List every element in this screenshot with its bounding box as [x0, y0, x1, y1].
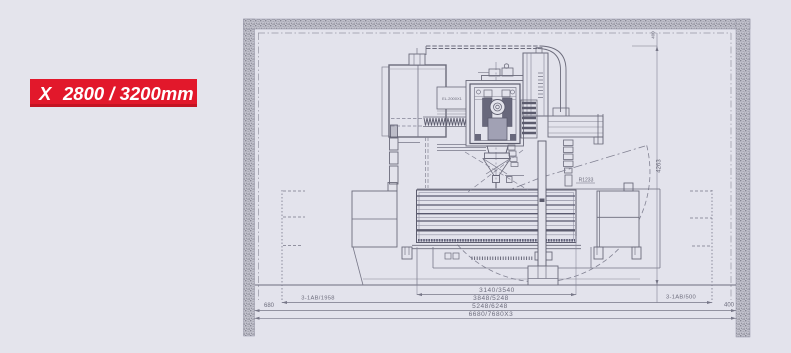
duct bottom box: [553, 108, 569, 117]
crossrail hidden lines in cabinet: [391, 119, 423, 127]
wall right (hatched): [736, 19, 750, 337]
vertical post: [538, 141, 546, 266]
cabinet right leg (hidden): [426, 137, 429, 188]
svg-text:2800 / 3200mm: 2800 / 3200mm: [62, 83, 194, 104]
head top plate: [482, 76, 524, 81]
swing radial upper: [541, 146, 645, 178]
dim line D 6680/7680: [255, 311, 737, 320]
head neck: [487, 146, 508, 153]
red label X 2800/3200mm: [30, 79, 197, 107]
tool: [493, 176, 500, 183]
height dim tick: [632, 45, 657, 47]
tool changer steps: [508, 145, 518, 167]
cabinet left leg: [390, 138, 399, 184]
EL.2000 label box: [437, 87, 467, 109]
clearance dotted line left: [281, 190, 283, 303]
right wing stub: [624, 183, 633, 191]
head housing inner: [475, 88, 517, 141]
column label dashes: [538, 73, 543, 98]
ladder blocks under beam: [564, 140, 574, 186]
dim line A 3140/3540: [417, 287, 576, 296]
electrical cabinet: [389, 65, 446, 137]
lines below EL box: [437, 111, 466, 114]
platform lines left of spindle: [437, 145, 486, 151]
dim A extension lines: [417, 236, 576, 295]
cable duct horizontal: [426, 46, 540, 49]
clearance dotted line right: [711, 190, 713, 303]
center pocket: [535, 252, 552, 260]
head gearbox right block: [503, 98, 513, 127]
head corner blocks: [475, 134, 481, 141]
head housing outer: [466, 81, 524, 147]
cabinet bottom-left box: [391, 125, 398, 137]
saddle lines below table: [412, 245, 581, 248]
cable duct start drop: [425, 46, 427, 55]
soft veil over drawing: [240, 0, 791, 353]
cabinet divider: [417, 65, 419, 137]
spindle collar: [485, 153, 510, 159]
shelf line right of head: [505, 175, 524, 177]
boundary line dash-dot right: [730, 33, 732, 300]
svg-text:X: X: [38, 83, 53, 104]
dim line C 5248/6248: [255, 303, 737, 313]
head gearbox left block: [483, 98, 493, 127]
crossrail beam right: [548, 114, 603, 144]
clearance dashes right: [690, 191, 712, 246]
electrical cabinet outer door: [382, 67, 446, 136]
swing radial lower: [448, 178, 541, 215]
left wing stub: [388, 183, 397, 192]
cable duct elbow and vertical: [538, 46, 566, 116]
boundary line dash-dot top: [258, 32, 731, 34]
base left slant: [353, 247, 363, 285]
boundary line dash-dot left: [258, 33, 260, 300]
phantom table position right: [659, 189, 661, 268]
cabinet inner top line: [389, 68, 446, 70]
foot right2: [632, 247, 641, 259]
table top surface line: [417, 188, 660, 190]
dim line B 3848/5248: [282, 295, 712, 305]
floor line: [255, 284, 736, 286]
foot right1: [594, 247, 603, 259]
head top mounts: [478, 64, 513, 76]
base right edge: [590, 247, 592, 268]
base left edge: [432, 247, 434, 268]
wall top (hatched): [244, 19, 751, 29]
gear rack right of head: [521, 100, 537, 138]
swing arc dashed: [445, 145, 650, 282]
pit floor line: [433, 267, 660, 269]
louver ticks: [472, 257, 532, 261]
left wing: [352, 191, 397, 247]
column top fittings: [536, 48, 542, 54]
extension x417 down: [416, 247, 418, 285]
table block: [417, 190, 577, 243]
base lower line: [363, 278, 640, 280]
small vents: [445, 253, 451, 259]
head small top gears: [484, 90, 492, 97]
spindle cone: [483, 159, 511, 176]
wall left (hatched): [244, 19, 255, 336]
pivot node dark: [538, 172, 546, 179]
small node left: [507, 177, 513, 183]
height dim line 4263: [656, 33, 663, 303]
post nub: [540, 199, 545, 203]
spindle centerline: [495, 62, 497, 190]
head interior lines: [475, 97, 517, 100]
cabinet shelf line: [398, 142, 420, 144]
pit box: [528, 266, 558, 285]
cone cross lines: [483, 159, 511, 175]
column: [523, 53, 548, 116]
cabinet top junction box: [409, 48, 425, 65]
head motor circle: [490, 100, 505, 115]
foot left: [402, 247, 412, 259]
head spindle cartridge: [488, 118, 507, 140]
R label: [576, 178, 595, 184]
cone swing dashed diagonals: [465, 150, 528, 192]
bellows left (zigzag way cover): [423, 117, 466, 127]
head housing: [470, 84, 520, 144]
clearance dashes left: [283, 191, 305, 246]
right wing: [597, 191, 639, 247]
